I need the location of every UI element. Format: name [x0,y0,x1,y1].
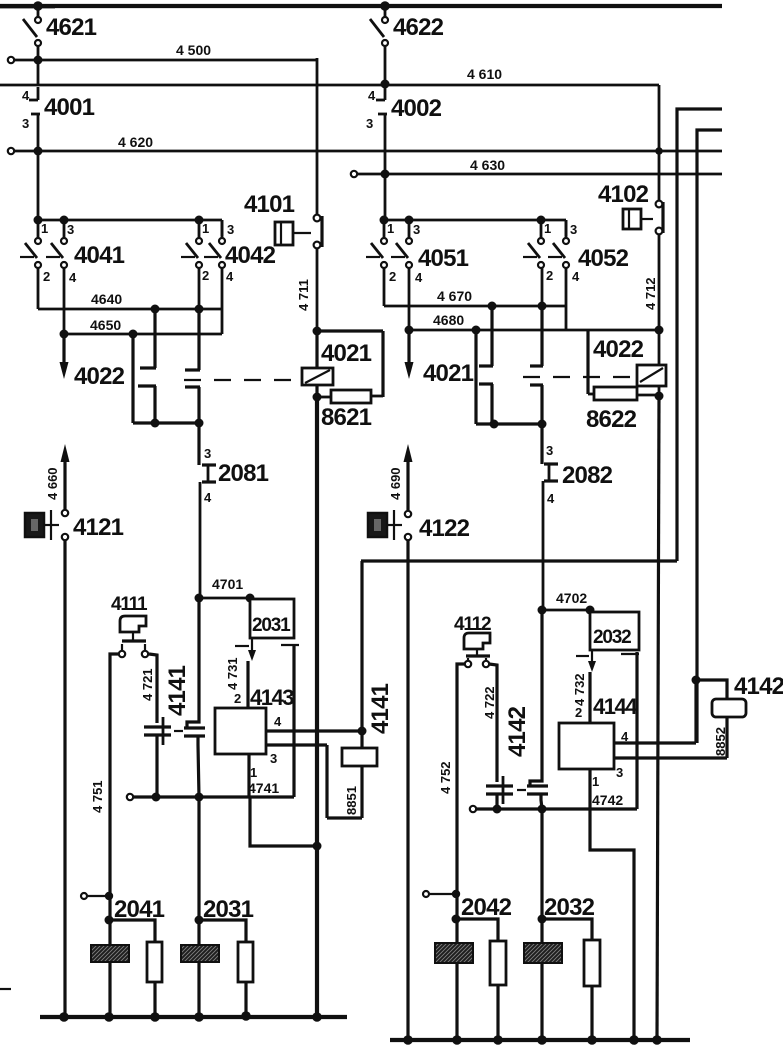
svg-text:2: 2 [202,268,209,283]
svg-text:1: 1 [592,774,599,789]
svg-text:4 731: 4 731 [225,657,240,690]
svg-text:8622: 8622 [586,406,637,433]
svg-text:4001: 4001 [44,94,95,121]
svg-text:4: 4 [572,269,580,284]
svg-text:2081: 2081 [218,460,269,487]
svg-text:4622: 4622 [393,14,444,41]
svg-text:2032: 2032 [544,894,595,921]
svg-text:4: 4 [415,270,423,285]
svg-text:4 660: 4 660 [45,467,60,500]
svg-text:3: 3 [413,222,420,237]
svg-text:4 690: 4 690 [388,467,403,500]
svg-text:3: 3 [546,443,553,458]
svg-text:2: 2 [234,691,241,706]
svg-text:4640: 4640 [91,291,122,307]
svg-text:4701: 4701 [212,576,243,592]
svg-text:4022: 4022 [74,363,125,390]
svg-text:2: 2 [546,268,553,283]
svg-text:1: 1 [387,221,394,236]
svg-text:4022: 4022 [593,336,644,363]
svg-text:1: 1 [202,221,209,236]
svg-text:4 752: 4 752 [438,761,453,794]
svg-text:4: 4 [204,490,212,505]
svg-text:4102: 4102 [598,181,649,208]
svg-text:2041: 2041 [114,896,165,923]
svg-text:4142: 4142 [734,673,783,700]
svg-text:4111: 4111 [111,594,148,615]
svg-text:4: 4 [368,88,376,103]
svg-text:3: 3 [366,116,373,131]
svg-text:2082: 2082 [562,462,613,489]
svg-text:4052: 4052 [578,245,629,272]
svg-text:3: 3 [227,222,234,237]
svg-text:4: 4 [69,270,77,285]
svg-text:4 610: 4 610 [467,66,502,82]
svg-text:4741: 4741 [248,780,279,796]
svg-text:4 721: 4 721 [140,668,155,701]
svg-text:1: 1 [544,221,551,236]
svg-text:3: 3 [570,222,577,237]
svg-text:1: 1 [41,221,48,236]
svg-text:4 620: 4 620 [118,134,153,150]
svg-text:4621: 4621 [46,14,97,41]
svg-text:4002: 4002 [391,95,442,122]
svg-text:2: 2 [389,269,396,284]
svg-text:3: 3 [67,222,74,237]
svg-text:4: 4 [226,269,234,284]
svg-text:3: 3 [204,446,211,461]
svg-text:4: 4 [274,714,282,729]
svg-text:4 670: 4 670 [437,288,472,304]
svg-text:3: 3 [22,116,29,131]
svg-text:4101: 4101 [244,191,295,218]
svg-text:4: 4 [547,491,555,506]
svg-text:4 712: 4 712 [643,277,658,310]
svg-text:2032: 2032 [593,627,631,648]
svg-text:2031: 2031 [252,615,291,636]
svg-text:4 732: 4 732 [572,673,587,706]
svg-text:4 711: 4 711 [296,279,311,311]
svg-text:2: 2 [43,269,50,284]
svg-text:4 630: 4 630 [470,157,505,173]
svg-text:4141: 4141 [367,683,394,734]
svg-text:4144: 4144 [593,694,638,719]
svg-text:4742: 4742 [592,792,623,808]
svg-text:3: 3 [270,751,277,766]
svg-text:2031: 2031 [203,896,254,923]
svg-text:4142: 4142 [504,706,531,757]
svg-text:4702: 4702 [556,590,587,606]
svg-text:4041: 4041 [74,242,125,269]
svg-text:4: 4 [22,88,30,103]
svg-text:4680: 4680 [433,312,464,328]
svg-text:8852: 8852 [713,727,728,756]
svg-text:4121: 4121 [73,514,124,541]
svg-text:3: 3 [616,765,623,780]
svg-text:8621: 8621 [321,404,372,431]
svg-text:1: 1 [250,765,257,780]
svg-text:8851: 8851 [344,786,359,815]
svg-text:4051: 4051 [418,245,469,272]
svg-text:4650: 4650 [90,317,121,333]
svg-text:4 751: 4 751 [90,780,105,813]
svg-text:4122: 4122 [419,515,470,542]
svg-text:4042: 4042 [225,242,276,269]
svg-text:4141: 4141 [164,665,191,716]
svg-text:4021: 4021 [423,360,474,387]
svg-text:4112: 4112 [454,614,491,635]
svg-text:4143: 4143 [250,685,294,710]
svg-text:4021: 4021 [321,340,372,367]
svg-text:2: 2 [575,705,582,720]
svg-text:4 722: 4 722 [482,686,497,719]
svg-text:2042: 2042 [461,894,512,921]
svg-text:4 500: 4 500 [176,42,211,58]
svg-text:4: 4 [621,729,629,744]
